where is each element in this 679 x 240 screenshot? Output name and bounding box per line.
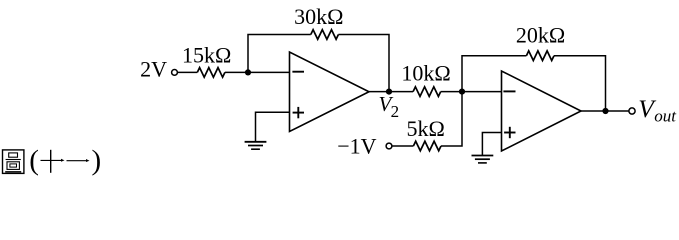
- svg-text:20kΩ: 20kΩ: [516, 23, 565, 48]
- svg-text:2V: 2V: [140, 57, 167, 82]
- svg-text:10kΩ: 10kΩ: [401, 61, 450, 86]
- svg-text:30kΩ: 30kΩ: [294, 4, 343, 29]
- svg-text:−1V: −1V: [337, 133, 376, 158]
- svg-text:(: (: [29, 144, 39, 176]
- svg-text:2: 2: [391, 102, 400, 121]
- svg-text:out: out: [654, 107, 677, 126]
- svg-text:5kΩ: 5kΩ: [407, 116, 445, 141]
- svg-text:15kΩ: 15kΩ: [182, 42, 231, 67]
- svg-text:): ): [92, 144, 102, 176]
